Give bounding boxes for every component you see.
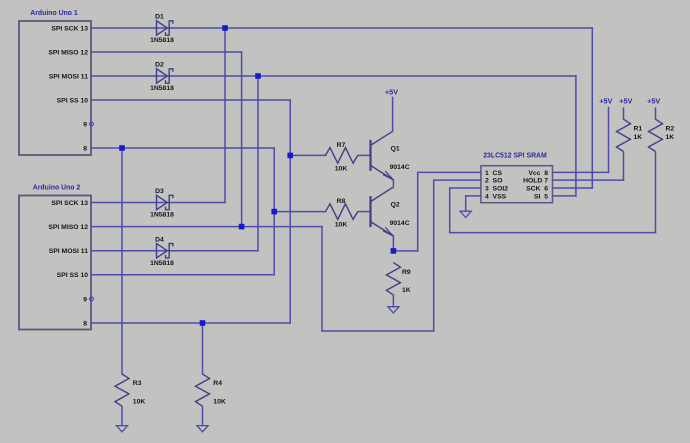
- wire MOSI net vertical down to SRAM SI: [575, 76, 577, 196]
- svg-text:10K: 10K: [335, 222, 348, 229]
- wire SRAM SCK pin 6: [553, 187, 593, 189]
- wire SRAM HOLD pin 7: [553, 179, 624, 181]
- resistor R3: [115, 374, 129, 406]
- svg-text:1N5818: 1N5818: [150, 85, 174, 92]
- wire Arduino2 pin8 horizontal: [91, 322, 290, 324]
- svg-text:SCK 6: SCK 6: [526, 185, 548, 192]
- wire SCK net vertical from junction down to D3 cathode row: [224, 28, 226, 203]
- wire R4 vertical from Arduino2 pin8 junction: [202, 323, 204, 374]
- IC U2 Arduino Uno 2 box: [19, 196, 91, 330]
- wire R3 vertical from Arduino1 pin8 junction: [121, 148, 123, 374]
- wire MISO2 from Arduino2 pin12: [91, 226, 322, 228]
- svg-text:9: 9: [83, 296, 87, 303]
- svg-text:1N5818: 1N5818: [150, 212, 174, 219]
- svg-text:1K: 1K: [402, 287, 411, 294]
- wire pin8 net vertical down to Arduino2 SS row: [273, 148, 275, 275]
- wire MISO net vertical up to SRAM SO: [433, 180, 435, 331]
- resistor R2: [649, 119, 663, 151]
- wire R3 bottom stem to ground: [121, 407, 123, 426]
- svg-text:R3: R3: [133, 380, 142, 387]
- IC U3 23LC512 SPI SRAM box: [481, 166, 553, 203]
- svg-text:Arduino Uno 2: Arduino Uno 2: [33, 185, 81, 192]
- ground below R9: [388, 307, 399, 313]
- svg-text:Q2: Q2: [391, 202, 400, 209]
- svg-text:1N5818: 1N5818: [150, 260, 174, 267]
- svg-text:D3: D3: [155, 188, 164, 195]
- wire Q1 emitter to Q2 collector: [392, 180, 394, 188]
- wire MISO1 from Arduino1 pin12: [91, 51, 242, 53]
- wire SRAM SIO2 pin 3: [450, 187, 481, 189]
- junction on Arduino1 pin8 net at R3: [119, 145, 125, 151]
- wire R8 to Q2 base: [358, 211, 371, 213]
- wire HOLD up to R1 bottom: [623, 152, 625, 180]
- wire R2 top stem to +5V: [655, 108, 657, 119]
- svg-text:Vcc 8: Vcc 8: [528, 170, 548, 177]
- svg-text:9: 9: [83, 121, 87, 128]
- wire SS2 from Arduino2 pin10: [91, 274, 274, 276]
- wire R7 feed from SS1 junction: [290, 154, 325, 156]
- wire CS to R9 top junction: [393, 250, 417, 252]
- svg-text:HOLD 7: HOLD 7: [523, 178, 548, 185]
- svg-text:SPI MISO 12: SPI MISO 12: [48, 224, 88, 231]
- wire R4 bottom stem to ground: [202, 407, 204, 426]
- svg-text:+5V: +5V: [385, 87, 398, 96]
- svg-text:SPI SCK 13: SPI SCK 13: [51, 25, 88, 32]
- wire MOSI2 from Arduino2 pin11 through D4: [91, 250, 258, 252]
- svg-text:SPI MOSI 11: SPI MOSI 11: [49, 248, 89, 255]
- junction SS1 net at R7 feed: [287, 153, 293, 159]
- wire R7 to Q1 base: [358, 154, 371, 156]
- diode D4: [157, 244, 173, 258]
- svg-text:D2: D2: [155, 62, 164, 69]
- wire SCK net vertical down to SRAM SCK: [591, 28, 593, 188]
- svg-text:R8: R8: [337, 198, 346, 205]
- svg-text:+5V: +5V: [619, 96, 632, 105]
- wire SRAM CS pin 1: [418, 171, 481, 173]
- wire Q2 emitter down to R9 junction: [392, 236, 394, 251]
- svg-text:SPI SS 10: SPI SS 10: [57, 97, 89, 104]
- svg-text:10K: 10K: [213, 399, 226, 406]
- svg-text:Arduino Uno 1: Arduino Uno 1: [30, 10, 78, 17]
- resistor R4: [196, 374, 210, 406]
- wire MISO net bottom horizontal: [322, 330, 434, 332]
- unconnected pin 9 circle Arduino1: [90, 122, 94, 126]
- svg-text:R4: R4: [213, 380, 222, 387]
- svg-text:SPI MOSI 11: SPI MOSI 11: [49, 73, 89, 80]
- wire R8 feed from pin8 junction: [274, 211, 325, 213]
- svg-text:R2: R2: [666, 125, 675, 132]
- svg-text:+5V: +5V: [647, 96, 660, 105]
- wire Q1 collector to +5V: [392, 97, 394, 131]
- svg-text:23LC512 SPI SRAM: 23LC512 SPI SRAM: [483, 152, 547, 159]
- svg-text:10K: 10K: [335, 165, 348, 172]
- wire SS1 vertical down to Arduino2 pin8 row: [289, 100, 291, 323]
- wire SIO2 vertical down: [449, 188, 451, 233]
- wire SRAM SI pin 5: [553, 195, 576, 197]
- resistor R1: [617, 119, 631, 151]
- wire SRAM VSS pin 4: [466, 195, 481, 197]
- svg-text:D1: D1: [155, 14, 164, 21]
- transistor Q2: [371, 188, 394, 237]
- wire Vcc up to +5V: [608, 108, 610, 173]
- junction on MOSI net: [255, 73, 261, 79]
- svg-text:Q1: Q1: [391, 145, 400, 152]
- svg-text:R7: R7: [337, 142, 346, 149]
- diode D3: [157, 195, 173, 209]
- wire MOSI net vertical from junction to D4 cathode row: [257, 76, 259, 251]
- svg-text:9014C: 9014C: [390, 164, 410, 171]
- IC U1 Arduino Uno 1 box: [19, 21, 91, 155]
- diode D1: [157, 21, 173, 35]
- svg-text:R1: R1: [634, 125, 643, 132]
- svg-text:9014C: 9014C: [390, 220, 410, 227]
- svg-text:+5V: +5V: [599, 96, 612, 105]
- resistor R9: [386, 263, 400, 295]
- wire SCK1 from Arduino1 pin13 through D1 to top-right corner: [91, 27, 592, 29]
- wire R2 bottom vertical: [655, 152, 657, 232]
- junction pin8 net at R8 feed: [271, 209, 277, 215]
- resistor R7: [325, 148, 357, 164]
- junction on SCK net: [222, 25, 228, 31]
- svg-text:1N5818: 1N5818: [150, 37, 174, 44]
- resistor R8: [325, 204, 357, 220]
- wire SIO2 bottom horizontal to R2: [450, 232, 656, 234]
- wire CS vertical down: [417, 172, 419, 251]
- wire VSS down to ground: [465, 196, 467, 211]
- svg-text:8: 8: [83, 145, 87, 152]
- svg-text:D4: D4: [155, 236, 164, 243]
- wire SRAM Vcc pin 8: [553, 171, 609, 173]
- svg-text:2 SO: 2 SO: [485, 178, 502, 185]
- wire Arduino1 pin8 horizontal: [91, 147, 274, 149]
- wire MISO net vertical down: [321, 227, 323, 331]
- svg-text:SPI SCK 13: SPI SCK 13: [51, 200, 88, 207]
- svg-text:4 VSS: 4 VSS: [485, 193, 507, 200]
- wire SCK2 from Arduino2 pin13 through D3: [91, 202, 225, 204]
- svg-text:R9: R9: [402, 269, 411, 276]
- svg-text:1K: 1K: [666, 134, 675, 141]
- wire SS1 from Arduino1 pin10: [91, 99, 290, 101]
- ground at SRAM VSS: [460, 211, 471, 217]
- wire SRAM SO pin 2: [434, 179, 481, 181]
- wire R1 top stem to +5V: [623, 108, 625, 119]
- ground below R4: [197, 426, 208, 432]
- svg-text:SI 5: SI 5: [534, 193, 548, 200]
- wire MISO1 vertical down to MISO2 junction: [241, 52, 243, 227]
- svg-text:1K: 1K: [634, 134, 643, 141]
- ground below R3: [116, 426, 127, 432]
- wire MOSI1 from Arduino1 pin11 through D2 to the right: [91, 75, 576, 77]
- unconnected pin 9 circle Arduino2: [90, 297, 94, 301]
- svg-text:3 SOI2: 3 SOI2: [485, 185, 508, 192]
- junction Arduino2 pin8 net at R4: [200, 320, 206, 326]
- wire R9 bottom stem to ground: [392, 296, 394, 307]
- svg-text:1 CS: 1 CS: [485, 170, 502, 177]
- svg-text:SPI SS 10: SPI SS 10: [57, 272, 89, 279]
- transistor Q1: [371, 131, 394, 180]
- junction Q2 emitter R9 CS node: [391, 248, 397, 254]
- diode D2: [157, 69, 173, 83]
- svg-text:10K: 10K: [133, 399, 146, 406]
- svg-text:8: 8: [83, 320, 87, 327]
- svg-text:SPI MISO 12: SPI MISO 12: [48, 49, 88, 56]
- junction MISO nets: [239, 224, 245, 230]
